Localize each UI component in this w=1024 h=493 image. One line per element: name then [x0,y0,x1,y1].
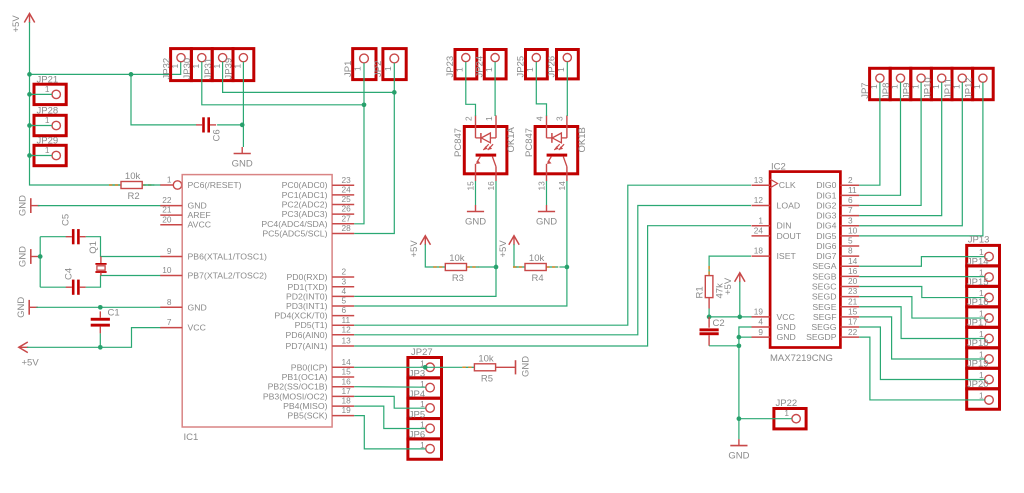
wire OK1B pin 13 to ground [546,181,548,205]
svg-text:Q1: Q1 [88,241,99,254]
capacitor C2 [700,328,719,345]
svg-text:22: 22 [162,195,172,205]
svg-text:PC4(ADC4/SDA): PC4(ADC4/SDA) [261,219,327,229]
label JP9 [902,83,913,99]
capacitor C4 [66,280,86,295]
label JP24 [475,56,486,78]
ground below OK1B label [536,217,557,228]
svg-text:1: 1 [167,175,172,185]
resistor R3 value [449,253,465,264]
svg-text:16: 16 [486,181,496,191]
svg-text:15: 15 [342,367,352,377]
svg-text:MAX7219CNG: MAX7219CNG [770,353,833,364]
svg-text:1: 1 [484,67,494,72]
junction JP3 pin [423,365,428,370]
svg-text:VCC: VCC [777,312,795,322]
wire JP11 to IC2 DIG4 [859,82,962,225]
svg-text:1: 1 [170,64,180,69]
svg-text:IC2: IC2 [771,161,786,172]
svg-text:PD6(AIN0): PD6(AIN0) [286,330,328,340]
junction +5V / C6 branch [129,72,134,77]
svg-text:26: 26 [342,204,352,214]
svg-text:5: 5 [342,296,347,306]
connector JP25 [526,50,548,79]
svg-text:R4: R4 [532,273,544,284]
resistor R2 name [128,191,140,202]
ground below C6 label [232,159,253,170]
ground below IC2 label [728,451,749,462]
svg-text:+5V: +5V [409,240,420,258]
svg-text:16: 16 [848,266,858,276]
svg-text:1: 1 [890,84,900,89]
svg-text:22: 22 [848,327,858,337]
label JP23 [445,56,456,78]
pin 1 label JP27 cell 2 [420,379,425,389]
pin 1 label OK1A [484,116,494,121]
wire C5 left [40,236,66,238]
wire IC2 pin 4 GND [739,327,752,439]
svg-text:10: 10 [162,265,172,275]
label JP20 [967,379,989,390]
pin 2 label OK1A [463,116,473,121]
svg-text:GND: GND [188,201,207,211]
IC1 pin 14 PB0(ICP) [291,357,354,372]
svg-text:12: 12 [754,195,764,205]
wire IC1 pin 16 to JP4 [354,386,425,389]
svg-text:4: 4 [758,317,763,327]
IC2 pin 9 GND [752,327,796,342]
wire JP23 to OK1A pin 2 [466,62,476,116]
svg-text:PD2(INT0): PD2(INT0) [286,291,328,301]
IC1 pin 7 VCC [160,317,206,332]
wire R4 to junction [559,266,567,268]
IC1 pin 17 PB3(MOSI/OC2) [263,386,354,401]
svg-text:13: 13 [537,181,547,191]
IC2 pin 22 SEGDP [806,327,859,342]
pin 1 label JP26 [556,67,566,72]
connector column JP27/JP3/JP4/JP5/JP6 [408,358,442,460]
ground at IC1 pin 8 [29,300,38,315]
IC1 pin 10 PB7(XTAL2/TOSC2) [160,265,267,280]
svg-text:2: 2 [848,175,853,185]
label JP16 [967,297,989,308]
label JP1 [343,61,354,77]
svg-text:1: 1 [979,390,984,400]
IC1 pin 11 PD5(T1) [295,315,355,330]
wire R2 to IC1 pin 1 [143,184,161,186]
junction JP28 pin [27,123,32,128]
pin 1 label JP7 row cell 3 [910,84,920,89]
IC2 pin 15 SEGF [813,306,859,321]
wire JP7 to IC2 DIG0 [859,82,880,185]
pin 1 lead IC1 [160,181,181,189]
svg-text:SEGB: SEGB [812,271,836,281]
svg-text:JP26: JP26 [547,56,558,78]
resistor R3 [433,264,478,271]
svg-text:10k: 10k [449,253,465,264]
svg-text:10k: 10k [529,253,545,264]
svg-text:1: 1 [784,408,789,418]
svg-text:+5V: +5V [22,358,40,369]
ground below IC2 [730,439,747,446]
wire JP1 to IC1 pin 27 [354,63,364,224]
ground below OK1A [467,205,484,212]
svg-text:R1: R1 [694,286,705,298]
svg-text:1: 1 [484,116,494,121]
svg-text:18: 18 [754,246,764,256]
svg-text:21: 21 [162,205,172,215]
resistor R1 [705,266,713,309]
svg-text:JP20: JP20 [967,379,989,390]
svg-text:23: 23 [848,286,858,296]
resistor R4 name [532,273,544,284]
svg-text:JP14: JP14 [967,256,989,267]
capacitor C1 [91,311,110,333]
IC1 pin 22 GND [160,195,207,210]
connector JP21 [34,84,66,104]
label JP31 [203,58,214,80]
label JP17 [967,318,989,329]
wire IC1 pin 13 to IC2 DIN [354,226,751,346]
resistor R4 [513,264,558,271]
svg-text:1: 1 [233,64,243,69]
svg-text:17: 17 [848,317,858,327]
wire GND rail to JP22 [739,418,792,420]
svg-text:15: 15 [848,306,858,316]
crystal Q1 [95,257,106,276]
svg-text:SEGD: SEGD [812,292,837,302]
pin 13 label OK1B [537,181,547,191]
svg-text:PC2(ADC2): PC2(ADC2) [282,200,328,210]
wire IC2 SEGD to JP16 [859,297,985,318]
pin 1 label JP28 [45,115,50,125]
pin 1 label JP13 col cell 7 [979,370,984,380]
wire C4 right to XTAL2 [86,276,161,288]
svg-text:DIG7: DIG7 [816,251,836,261]
svg-text:3: 3 [848,215,853,225]
svg-text:JP19: JP19 [967,359,989,370]
svg-text:1: 1 [910,84,920,89]
wire JP12 to IC2 DIG5 [859,82,983,236]
svg-text:13: 13 [754,175,764,185]
pin 1 label JP13 col cell 2 [979,267,984,277]
svg-text:1: 1 [869,84,879,89]
svg-text:4: 4 [342,286,347,296]
svg-text:1: 1 [556,67,566,72]
svg-text:GND: GND [465,217,486,228]
IC2 pin 19 VCC [752,306,795,321]
capacitor C6 [196,117,216,132]
pin 1 label JP7 row cell 4 [931,84,941,89]
label +5V bottom-left [22,358,40,369]
wire IC1 pin 19 to JP27 cell5 [354,416,425,449]
svg-text:GND: GND [17,246,28,267]
svg-text:SEGC: SEGC [812,282,837,292]
IC1 pin 24 PC1(ADC1) [282,185,355,200]
wire C5 right to XTAL1 [86,237,161,257]
label PC847 OK1A [453,128,464,157]
svg-text:LOAD: LOAD [777,200,801,210]
pin 1 label JP29 [45,145,50,155]
connector JP2 [383,49,406,80]
+5V supply at R3 [420,236,430,246]
label JP5 [409,409,425,420]
svg-text:GND: GND [16,297,27,318]
svg-text:13: 13 [342,336,352,346]
svg-text:25: 25 [342,194,352,204]
pin 16 label OK1A [486,181,496,191]
IC1 pin 28 PC5(ADC5/SCL) [262,223,354,238]
IC2 pin 14 SEGA [812,256,859,271]
label MAX7219CNG [770,353,833,364]
svg-text:C6: C6 [212,129,223,141]
wire JP10 to IC2 DIG3 [859,82,942,215]
ground below C6 [234,147,251,154]
wire JP25 to OK1B pin 4 [536,62,546,116]
svg-text:3: 3 [555,116,565,121]
label JP19 [967,359,989,370]
pin 1 label JP7 row cell 6 [972,84,982,89]
wire IC1 pin 14 through JP3 to R5 [354,366,462,368]
svg-text:GND: GND [536,217,557,228]
svg-text:SEGDP: SEGDP [806,332,837,342]
svg-text:1: 1 [455,67,465,72]
junction R1 / C2 / VCC [707,315,712,320]
wire C2 bottom to GND rail [709,345,739,347]
+5V supply at IC2 [735,273,745,283]
label JP12 [964,77,975,99]
svg-text:R2: R2 [128,191,140,202]
label JP27 [411,347,433,358]
wire ISET to R1 [709,256,751,268]
pin 1 label JP1 [353,66,363,71]
svg-text:19: 19 [754,306,764,316]
svg-text:6: 6 [848,195,853,205]
svg-text:7: 7 [848,205,853,215]
svg-text:PC3(ADC3): PC3(ADC3) [282,209,328,219]
svg-text:DOUT: DOUT [777,231,802,241]
junction C1 top [98,305,103,310]
svg-text:C1: C1 [108,308,120,319]
svg-text:24: 24 [342,185,352,195]
svg-text:18: 18 [342,396,352,406]
svg-text:JP25: JP25 [516,56,527,78]
+5V supply at R4 label [498,240,509,258]
IC2 pin 23 SEGD [812,286,859,301]
svg-text:8: 8 [167,297,172,307]
IC1 pin 2 PD0(RXD) [286,267,354,282]
svg-text:17: 17 [342,386,352,396]
svg-text:JP24: JP24 [475,56,486,78]
+5V supply at R4 [509,236,519,246]
svg-text:PC5(ADC5/SCL): PC5(ADC5/SCL) [262,229,327,239]
junction +5V / VCC wire [737,315,742,320]
IC2 pin 1 DIN [752,215,792,230]
pin 1 label JP27 cell 4 [420,420,425,430]
svg-text:7: 7 [167,317,172,327]
svg-text:PB7(XTAL2/TOSC2): PB7(XTAL2/TOSC2) [188,271,267,281]
svg-text:PB5(SCK): PB5(SCK) [287,411,327,421]
svg-text:GND: GND [188,302,207,312]
IC2 pin 16 SEGB [812,266,859,281]
pin 3 label OK1B [555,116,565,121]
wire IC1 pin 11 to IC2 CLK [354,185,751,325]
pin 1 label JP7 row cell 1 [869,84,879,89]
svg-text:GND: GND [728,451,749,462]
pin 1 label JP7 row cell 2 [890,84,900,89]
pin 1 label JP13 col cell 4 [979,308,984,318]
svg-text:4: 4 [534,116,544,121]
IC2 pin 24 DOUT [752,225,802,240]
label JP8 [881,83,892,99]
wire GND2 to rail [38,256,40,258]
IC1 pin 3 PD1(TXD) [287,276,354,291]
label JP26 [547,56,558,78]
IC2 pin 8 DIG7 [816,246,859,261]
pin 1 label JP13 col cell 1 [979,247,984,257]
wire IC1 pin 17 to JP5 [354,396,425,408]
IC1 pin 6 PD4(XCK/T0) [274,305,354,320]
wire left vertical C5-C4 [39,237,41,288]
svg-text:11: 11 [848,185,857,195]
svg-text:GND: GND [17,195,28,216]
capacitor C6 label [212,129,223,141]
svg-text:10k: 10k [478,354,494,365]
svg-text:JP16: JP16 [967,297,989,308]
svg-text:PC847: PC847 [453,128,464,157]
junction JP2 / JP39 net [392,90,397,95]
label JP39 [224,58,235,80]
svg-text:PD5(T1): PD5(T1) [295,320,328,330]
IC1 pin 12 PD6(AIN0) [286,324,355,339]
svg-text:10k: 10k [125,171,141,182]
label JP29 [37,136,59,147]
IC2 pin 2 DIG0 [816,175,859,190]
capacitor C1 label [108,308,120,319]
IC1 pin 16 PB2(SS/OC1B) [268,376,355,391]
IC2 pin 4 GND [752,317,796,332]
pin 4 label OK1B [534,116,544,121]
label JP7 [860,82,871,98]
svg-text:+5V: +5V [723,277,734,295]
svg-text:PB0(ICP): PB0(ICP) [291,362,328,372]
label JP25 [516,56,527,78]
label JP4 [409,389,425,400]
label JP3 [409,369,425,380]
wire JP2 to IC1 pin 28 [354,63,394,234]
svg-text:1: 1 [383,66,393,71]
IC2 pin 17 SEGG [811,317,859,332]
junction JP22 tap [737,416,742,421]
IC2 pin 13 CLK [752,175,796,190]
svg-text:GND: GND [777,322,796,332]
IC2 pin 3 DIG4 [816,215,859,230]
svg-text:1: 1 [979,329,984,339]
svg-text:1: 1 [979,267,984,277]
svg-text:6: 6 [342,305,347,315]
wire +5V to R4 [514,244,517,267]
svg-text:PD4(XCK/T0): PD4(XCK/T0) [274,311,327,321]
label JP30 [182,58,193,80]
junction +5V rail top branch [27,72,32,77]
optocoupler OK1A [464,115,507,181]
svg-text:1: 1 [979,370,984,380]
svg-text:16: 16 [342,376,352,386]
svg-text:SEGF: SEGF [813,312,837,322]
label OK1A [506,126,517,152]
pin 1 label JP24 [484,67,494,72]
svg-text:+5V: +5V [11,15,22,33]
+5V supply top-left label [11,15,22,33]
svg-text:R5: R5 [481,374,493,385]
ground at IC1 pin 22 [31,198,40,213]
label JP14 [967,256,989,267]
wire IC2 SEGA to JP13 [859,257,985,267]
svg-text:20: 20 [848,276,858,286]
svg-text:DIG2: DIG2 [816,200,836,210]
junction C2 / GND rail [737,343,742,348]
svg-text:23: 23 [342,175,352,185]
wire +5V to JP28 pin 1 [30,125,53,127]
ground at IC1 pin 22 label [17,195,28,216]
wire C4 left [40,286,66,288]
svg-text:+5V: +5V [498,240,509,258]
IC2 pin 6 DIG2 [816,195,859,210]
svg-text:8: 8 [848,246,853,256]
wire IC2 SEGDP to JP20 [859,337,985,400]
wire +5V rail vertical to R2 [30,22,121,185]
IC2 pin 11 DIG1 [816,185,859,200]
resistor R3 name [452,273,464,284]
wire +5V stem IC2 [739,282,741,317]
pin 1 label JP13 col cell 3 [979,288,984,298]
svg-text:DIG5: DIG5 [816,231,836,241]
IC1 pin 18 PB4(MISO) [283,396,354,411]
svg-text:12: 12 [342,324,352,334]
svg-text:DIG3: DIG3 [816,211,836,221]
wire IC2 SEGB to JP14 [859,276,985,278]
svg-text:1: 1 [353,66,363,71]
svg-text:9: 9 [167,246,172,256]
IC1 pin 23 PC0(ADC0) [282,175,355,190]
svg-text:JP15: JP15 [967,277,989,288]
svg-text:DIG4: DIG4 [816,221,836,231]
svg-text:IC1: IC1 [184,432,199,443]
svg-text:9: 9 [758,327,763,337]
label OK1B [577,127,588,152]
capacitor C2 lead [708,317,710,328]
label Q1 [88,241,99,254]
IC1 pin 19 PB5(SCK) [287,405,354,420]
svg-text:PB6(XTAL1/TOSC1): PB6(XTAL1/TOSC1) [188,252,267,262]
junction JP1 / JP31 net [362,102,367,107]
IC2 CLK clock symbol [770,179,778,188]
IC1 pin 21 AREF [160,205,210,220]
svg-text:GND: GND [777,332,796,342]
pin 1 label JP7 row cell 5 [952,84,962,89]
svg-text:1: 1 [758,215,763,225]
svg-text:1: 1 [931,84,941,89]
IC2 pin 10 DIG5 [816,225,859,240]
capacitor C4 label [64,268,75,280]
ground below OK1A label [465,217,486,228]
connector column JP13-JP20 [967,245,1000,409]
svg-text:10: 10 [848,225,858,235]
svg-text:24: 24 [754,225,764,235]
svg-text:1: 1 [525,67,535,72]
svg-text:11: 11 [342,315,351,325]
pin 1 label JP27 cell 1 [420,359,425,369]
